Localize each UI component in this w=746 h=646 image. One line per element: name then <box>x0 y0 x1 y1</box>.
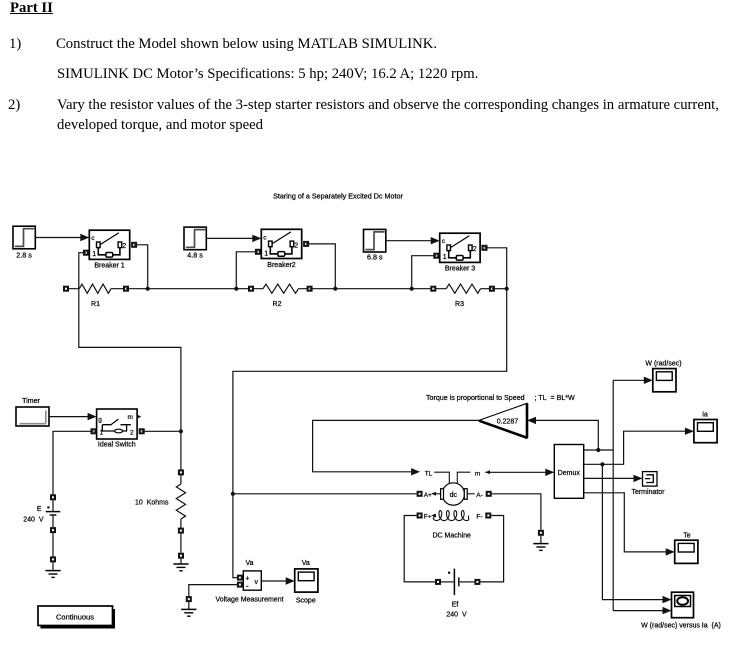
port R3 left <box>430 286 436 292</box>
junction bus-Breaker3 port1 <box>410 287 414 291</box>
junction node at 10 Kohms column <box>179 429 183 433</box>
wire bus R2 to R3 <box>310 288 434 290</box>
wire to W scope <box>613 377 653 384</box>
port IdealSwitch-1 <box>91 428 97 434</box>
block Voltage Measurement <box>215 560 283 604</box>
svg-text:240 V: 240 V <box>446 612 467 619</box>
svg-text:Voltage Measurement: Voltage Measurement <box>215 597 283 604</box>
junction A+ branch <box>231 492 235 496</box>
wire IdealSwitch port2 to node <box>142 430 181 432</box>
wire Breaker2 port2 down to bus <box>306 244 335 289</box>
wire branch to A+ <box>233 493 417 495</box>
port Breaker3-2 <box>482 245 488 251</box>
svg-text:240 V: 240 V <box>23 517 44 524</box>
list item 2 number <box>8 98 20 113</box>
block Timer <box>16 398 49 426</box>
junction bus-Breaker1 <box>146 287 150 291</box>
wire node Breaker1 port1 / R1 left / IdealSwitch2 / 10kohm <box>79 253 181 473</box>
svg-text:Ia: Ia <box>702 411 708 418</box>
svg-text:v: v <box>255 579 259 586</box>
svg-text:m: m <box>128 414 133 421</box>
wire bus R1 to R2 <box>126 288 251 290</box>
svg-text:E: E <box>37 506 42 513</box>
svg-text:Ideal Switch: Ideal Switch <box>98 442 136 449</box>
svg-text:DC Machine: DC Machine <box>432 532 471 539</box>
port DCMachine A+ <box>417 491 423 497</box>
svg-text:Demux: Demux <box>558 470 581 477</box>
ground under E <box>45 556 60 577</box>
item 2 text <box>57 98 719 113</box>
ground under VM minus <box>181 596 196 616</box>
wire to XY scope input2 <box>613 607 671 614</box>
svg-text:Breaker2: Breaker2 <box>267 262 296 269</box>
svg-text:6.8 s: 6.8 s <box>367 252 383 261</box>
svg-text:R1: R1 <box>91 301 100 308</box>
ground at A- <box>533 530 548 551</box>
svg-text:R3: R3 <box>455 301 464 308</box>
resistor R1 <box>66 284 126 308</box>
svg-text:Terminator: Terminator <box>631 489 665 496</box>
item 1 text <box>56 37 437 52</box>
port Breaker2-2 <box>303 241 309 247</box>
svg-text:2.8 s: 2.8 s <box>16 250 32 259</box>
port VoltageMeasurement plus <box>237 575 243 581</box>
resistor R2 <box>251 284 310 308</box>
breaker Breaker 3 <box>440 233 480 273</box>
svg-text:W (rad/sec) versus Ia (A): W (rad/sec) versus Ia (A) <box>641 623 721 630</box>
svg-text:F+: F+ <box>424 514 432 521</box>
port R2 right <box>307 286 313 292</box>
demux Demux <box>554 445 583 499</box>
machine DC Machine <box>424 470 483 539</box>
port IdealSwitch-2 <box>139 428 145 434</box>
svg-text:Va: Va <box>245 560 253 567</box>
svg-text:0.2287: 0.2287 <box>497 418 519 425</box>
junction out2 takeoff <box>600 462 604 466</box>
svg-text:Ef: Ef <box>452 602 459 609</box>
svg-text:Timer: Timer <box>22 398 40 405</box>
svg-text:Breaker 3: Breaker 3 <box>445 266 475 273</box>
wire m output to Demux <box>485 469 554 476</box>
wire A- to ground <box>492 494 541 530</box>
resistor 10 Kohms <box>135 475 185 527</box>
list item 1 number <box>9 37 21 52</box>
wire gain output to TL <box>313 420 479 475</box>
port VoltageMeasurement minus <box>237 582 243 588</box>
gain 0.2287 <box>479 403 528 438</box>
wire Demux out1 <box>584 449 614 451</box>
svg-text:2: 2 <box>130 430 134 437</box>
svg-text:R2: R2 <box>273 301 282 308</box>
breaker Breaker2 <box>261 229 301 268</box>
junction gain takeoff <box>596 448 600 452</box>
svg-text:Staring of a Separately Excite: Staring of a Separately Excited Dc Motor <box>273 191 403 200</box>
svg-text:1: 1 <box>100 430 104 437</box>
svg-text:Breaker 1: Breaker 1 <box>94 263 124 270</box>
scope Te <box>675 532 698 563</box>
item 2 line 2 <box>57 118 263 133</box>
port DCMachine F- <box>485 513 491 519</box>
svg-text:Continuous: Continuous <box>56 612 94 621</box>
port DCMachine F+ <box>417 513 423 519</box>
step source Step2 4.8 s <box>184 227 206 260</box>
svg-text:-: - <box>246 582 249 591</box>
junction bus-Breaker2 port2 <box>333 287 337 291</box>
svg-text:Torque is proportional to Spee: Torque is proportional to Speed ; TL = B… <box>426 394 575 402</box>
xy scope W versus Ia <box>641 592 721 629</box>
wire E to ground <box>52 533 54 556</box>
svg-text:g: g <box>98 417 102 424</box>
item 1 line 2 <box>57 67 478 82</box>
wire Breaker3 port2 down to bus <box>485 248 507 289</box>
wire out2 down to XY input1 <box>602 464 671 603</box>
port R1 left <box>63 286 69 292</box>
block Ideal Switch U1 <box>97 409 142 449</box>
svg-text:m: m <box>475 470 480 477</box>
wire VM minus to ground <box>189 585 237 597</box>
svg-text:W (rad/sec): W (rad/sec) <box>645 361 681 368</box>
port R3 right <box>489 286 495 292</box>
wire bus R3 to down node <box>492 288 507 290</box>
port Breaker2-1 <box>255 249 261 255</box>
port Breaker3-1 <box>433 253 439 259</box>
svg-text:F-: F- <box>476 514 482 521</box>
port Breaker1-1 <box>83 250 89 256</box>
wire Step3 to Breaker3 <box>386 237 440 244</box>
wire Demux out2 to Ia <box>584 428 694 465</box>
block Continuous (powergui) <box>38 606 115 629</box>
wire Demux out4 to Te <box>584 493 675 556</box>
battery E 240 V <box>23 494 60 533</box>
wire Step1 to Breaker1 <box>35 234 89 241</box>
port Breaker1-2 <box>131 242 137 248</box>
svg-text:Va: Va <box>302 560 310 567</box>
svg-text:TL: TL <box>425 470 433 477</box>
wire Breaker2 port1 to bus <box>236 252 258 289</box>
junction bus-Breaker2 port1 <box>234 287 238 291</box>
port R2 left <box>248 286 254 292</box>
port 10Kohms bottom <box>178 528 184 534</box>
svg-text:10 Kohms: 10 Kohms <box>135 500 169 507</box>
battery Ef 240 V <box>435 569 480 619</box>
heading Part II <box>10 1 53 16</box>
wire Step2 to Breaker2 <box>206 235 261 242</box>
scope Scope (Va) <box>295 560 318 605</box>
ground under 10 Kohms <box>173 553 188 571</box>
wire VM to Scope <box>261 577 294 584</box>
junction bus output <box>505 287 509 291</box>
svg-text:dc: dc <box>450 492 458 499</box>
wire Demux out1 to gain input <box>527 417 598 450</box>
wire Breaker1 port2 down to bus <box>134 245 148 289</box>
port DCMachine A- <box>486 491 492 497</box>
port 10Kohms top <box>178 469 184 475</box>
breaker Breaker 1 <box>89 230 129 269</box>
svg-text:4.8 s: 4.8 s <box>187 251 203 260</box>
step source Step1 2.8 s <box>13 226 35 259</box>
wire F- to Ef battery <box>480 516 503 582</box>
wire 10Kohms to ground <box>180 534 182 553</box>
wire bus down to Voltage Measurement plus <box>233 289 507 578</box>
wire W column <box>612 380 614 610</box>
port R1 right <box>123 286 129 292</box>
wire Timer to Ideal Switch g <box>50 413 97 420</box>
svg-text:A+: A+ <box>424 492 432 499</box>
wire IdealSwitch port1 to E source <box>53 431 94 497</box>
scope Ia <box>694 411 717 442</box>
svg-text:A-: A- <box>476 492 483 499</box>
wire F+ to Ef battery <box>404 516 435 582</box>
scope W (rad/sec) <box>645 361 681 392</box>
svg-text:Te: Te <box>683 532 691 539</box>
wire Demux out3 to Terminator <box>584 475 643 482</box>
resistor R3 <box>433 284 492 308</box>
terminator Terminator <box>631 472 665 496</box>
wire Breaker3 port1 to bus <box>412 256 437 289</box>
step source Step3 6.8 s <box>364 229 386 261</box>
svg-text:Scope: Scope <box>296 598 316 605</box>
